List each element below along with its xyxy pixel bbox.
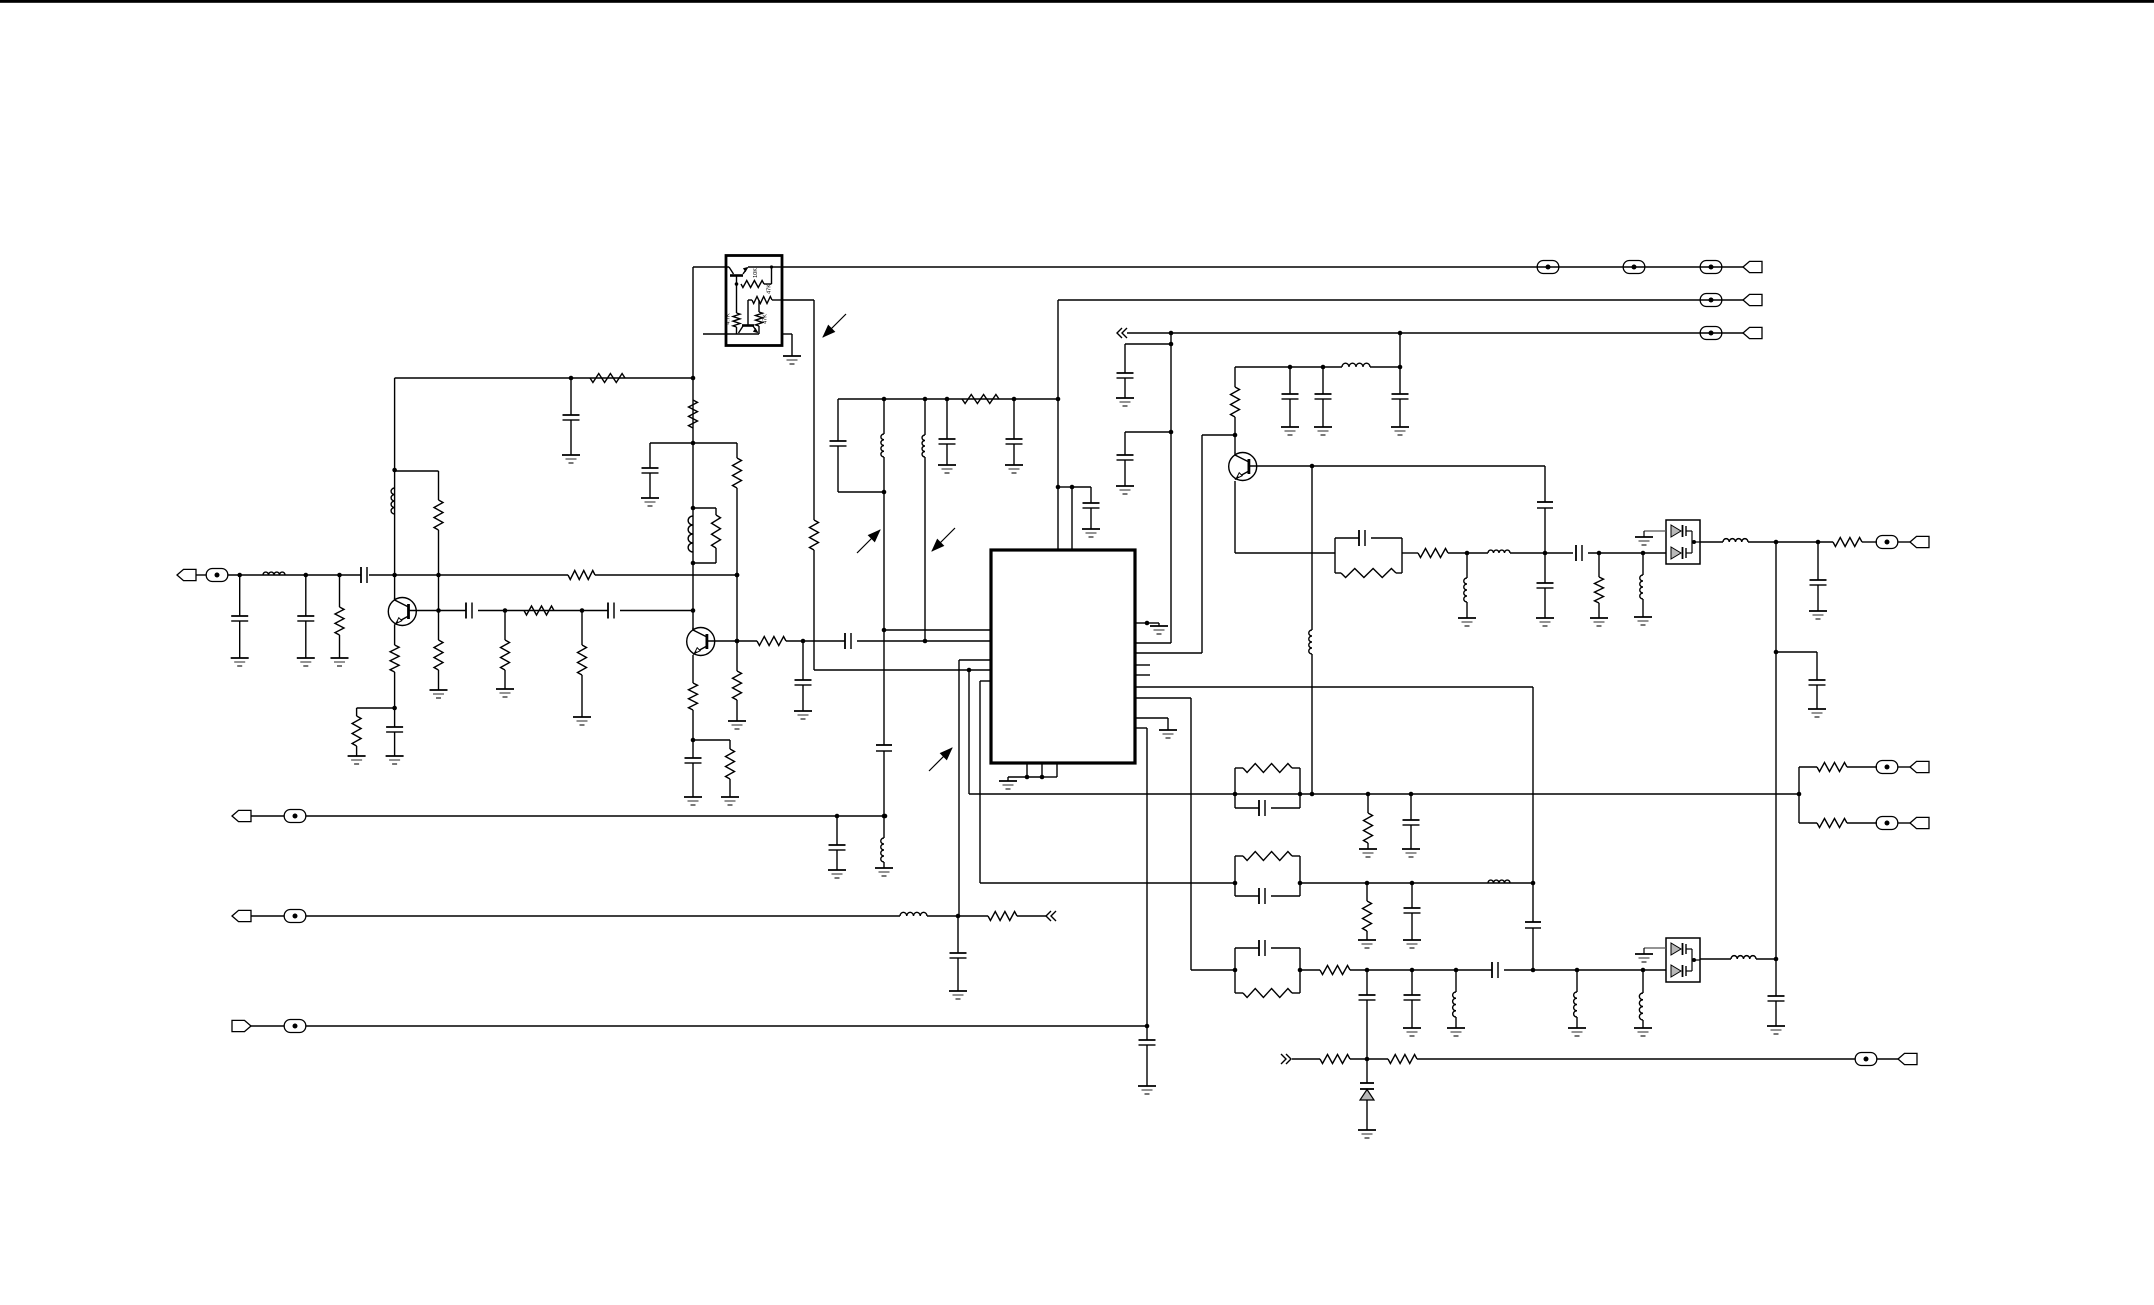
svg-text:47K: 47K	[767, 284, 773, 294]
svg-text:47K: 47K	[763, 314, 769, 324]
svg-text:10K: 10K	[753, 268, 759, 278]
svg-text:4.7K: 4.7K	[726, 313, 732, 325]
